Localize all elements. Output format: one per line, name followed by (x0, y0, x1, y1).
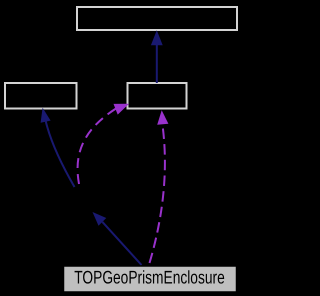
inheritance arrow invisible node to left box (solid midnightblue curve) (41, 108, 75, 187)
usage arrow TOPGeoPrismEnclosure to middle box (dashed darkorchid curve) (150, 110, 169, 263)
node box middle (text invisible) (128, 83, 187, 109)
svg-text:TOPGeoPrismEnclosure: TOPGeoPrismEnclosure (74, 267, 224, 288)
node box TOPGeoPrismEnclosure (highlighted gray) (64, 266, 237, 292)
node box left (text invisible) (5, 83, 77, 109)
node box top (base class, text invisible) (77, 7, 237, 30)
inheritance arrow middle box to top box (solid midnightblue) (151, 30, 163, 83)
inheritance arrow TOPGeoPrismEnclosure to invisible node (solid midnightblue) (93, 212, 142, 265)
usage arrow invisible node to middle box (dashed darkorchid curve) (78, 104, 129, 184)
